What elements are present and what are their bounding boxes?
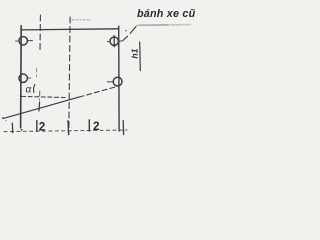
l2 label bar (right) (88, 120, 90, 131)
wheel top-right (107, 36, 121, 47)
dashed vertical axis x=40 (39, 15, 41, 52)
alpha arc stroke (34, 85, 35, 93)
faint dotted horizontal near top (72, 19, 91, 21)
dashed vertical axis x=69.5 (69, 17, 70, 135)
svg-text:2: 2 (39, 120, 46, 134)
tick crossing ramp at x=39.5 (38, 102, 41, 111)
wheel bottom-right (107, 77, 122, 86)
svg-text:bánh xe cũ: bánh xe cũ (137, 8, 196, 20)
ramp diagonal dashed part (79, 86, 118, 97)
horizontal dashed alpha reference line (22, 96, 67, 97)
scan speckle texture (6, 5, 191, 143)
wheel bottom-left (19, 74, 31, 82)
cart body left edge (20, 26, 23, 128)
svg-text:2: 2 (93, 119, 100, 133)
baseline tick middle (67, 121, 70, 135)
baseline tick left (11, 123, 13, 132)
cart body right edge (118, 26, 120, 131)
ramp diagonal solid part (3, 97, 79, 119)
wheel top-left (16, 37, 33, 45)
svg-text:h1: h1 (129, 48, 139, 58)
stray scan dots (2, 117, 3, 118)
baseline tick right (122, 121, 124, 135)
smudge line under label (137, 24, 191, 27)
h1 dimension line (139, 42, 142, 71)
svg-text:α: α (26, 85, 32, 96)
bottom dashed baseline (4, 130, 127, 132)
leader dashes from label to wheel (130, 27, 136, 34)
cart body top edge (21, 29, 119, 30)
dot below left edge (21, 129, 23, 131)
l2 label bar (left) (36, 121, 38, 132)
